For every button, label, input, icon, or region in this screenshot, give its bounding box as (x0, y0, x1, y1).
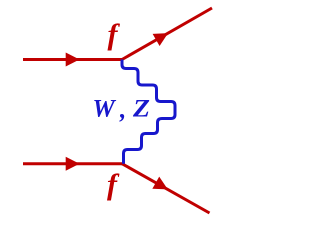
arrow on upper-left fermion line (66, 53, 80, 67)
arrow on lower-right fermion line (152, 177, 171, 196)
svg-text:W: W (93, 96, 117, 123)
fermion line f (outgoing, upper right) (122, 8, 212, 60)
fermion line f (outgoing, lower right) (122, 164, 210, 213)
fermion line f (incoming, lower left) (23, 162, 122, 165)
fermion line f (incoming, upper left) (23, 58, 122, 61)
arrow on lower-left fermion line (66, 157, 80, 171)
svg-text:,: , (119, 97, 126, 124)
svg-text:Z: Z (132, 96, 150, 123)
svg-text:f: f (108, 18, 121, 51)
arrow on upper-right fermion line (153, 27, 172, 46)
boson propagator W,Z (blue rectangular meander) (122, 60, 175, 164)
svg-text:f: f (107, 168, 120, 201)
